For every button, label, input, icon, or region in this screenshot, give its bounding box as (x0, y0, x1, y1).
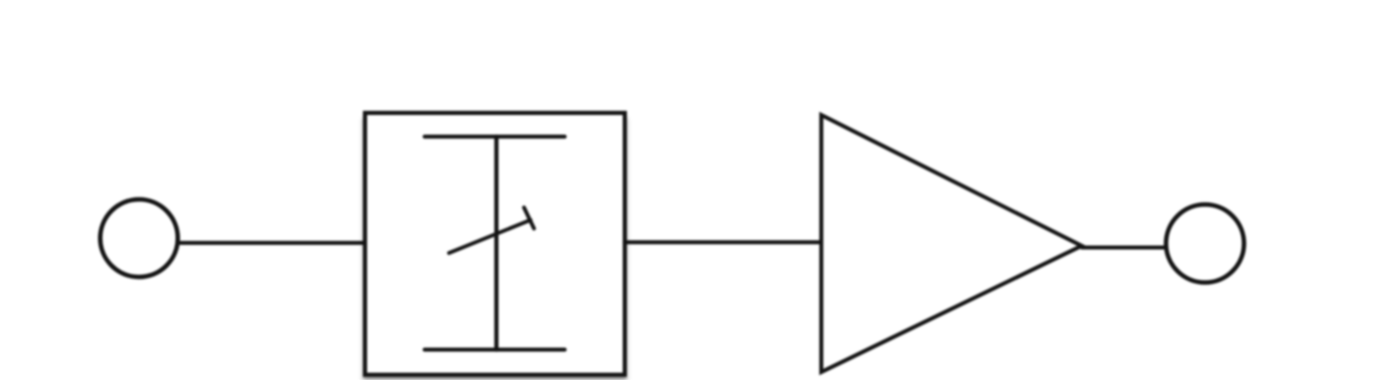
adjustable element: vertical body (494, 137, 498, 350)
input terminal (circle) (100, 199, 178, 277)
amplifier (triangle) (821, 115, 1081, 372)
wire: block to amplifier (625, 240, 822, 244)
adjustable element: bottom plate (425, 348, 565, 352)
preset-adjustment arrow: end bar (524, 208, 534, 229)
adjustable element: top plate (425, 135, 565, 139)
output terminal (circle) (1166, 205, 1244, 283)
preset-adjustment arrow: diagonal stroke (449, 220, 531, 253)
wire: input terminal to block (178, 241, 366, 245)
wire: amplifier to output terminal (1082, 246, 1166, 250)
block U1 (adjustable element box, drop shadow below) (365, 113, 625, 375)
